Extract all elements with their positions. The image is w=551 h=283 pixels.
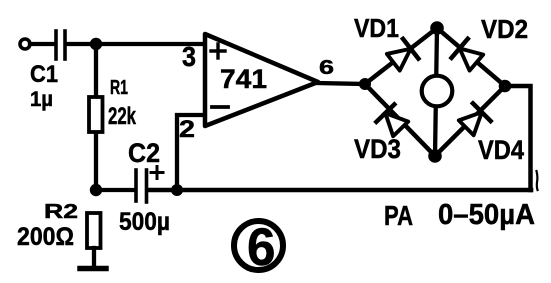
svg-text:C2: C2 <box>128 138 160 168</box>
diode VD4 <box>457 103 490 136</box>
op-amp minus input mark <box>212 105 228 109</box>
node B (bottom-left junction) <box>90 184 102 196</box>
node Bt (bridge bottom) <box>428 149 442 163</box>
wire C1 to op-amp pin 3 <box>67 42 204 46</box>
node R (bridge right) <box>499 80 512 93</box>
wire bridge right to rail <box>505 86 531 190</box>
svg-text:VD3: VD3 <box>354 134 401 164</box>
svg-text:VD1: VD1 <box>354 13 399 43</box>
node T (bridge top) <box>430 21 444 35</box>
bridge edge B-R <box>435 86 505 156</box>
svg-text:3: 3 <box>182 41 196 72</box>
svg-text:VD2: VD2 <box>481 14 528 44</box>
diode VD1 <box>386 39 419 72</box>
node L (bridge left) <box>359 78 371 90</box>
wire terminal to C1 <box>30 42 53 46</box>
wire R2 to ground <box>92 248 96 266</box>
ground <box>80 266 106 272</box>
svg-text:741: 741 <box>220 64 267 94</box>
capacitor C2 <box>136 170 147 202</box>
input terminal <box>20 39 30 49</box>
bridge edge T-R <box>437 28 505 86</box>
svg-text:6: 6 <box>319 57 334 79</box>
bridge edge L-T <box>365 28 437 84</box>
wire op-amp output to bridge <box>318 83 365 84</box>
svg-text:C1: C1 <box>30 61 58 88</box>
meter stem wire <box>435 28 437 156</box>
scan scratch mark <box>537 171 538 190</box>
svg-text:6: 6 <box>247 218 276 277</box>
resistor R1 <box>89 97 103 132</box>
diode VD2 <box>452 39 485 72</box>
wire node C up to pin 2 <box>177 115 204 190</box>
svg-text:PA: PA <box>384 200 413 231</box>
svg-text:R1: R1 <box>110 77 128 99</box>
svg-text:200Ω: 200Ω <box>17 223 74 251</box>
wire bottom rail left segment <box>96 188 134 192</box>
op-amp U1 741 <box>205 34 318 126</box>
diode VD3 <box>376 104 409 137</box>
capacitor C1 <box>56 31 65 59</box>
svg-text:500µ: 500µ <box>119 208 170 236</box>
node A (input junction) <box>90 38 102 50</box>
wire node A down to bottom rail <box>94 44 98 190</box>
meter PA body <box>422 76 453 107</box>
C2 plus polarity mark <box>151 167 163 179</box>
wire bottom rail right segment <box>149 188 532 193</box>
svg-text:0–50µA: 0–50µA <box>438 199 535 231</box>
figure number circle <box>234 221 283 270</box>
svg-text:1µ: 1µ <box>30 88 53 111</box>
svg-text:2: 2 <box>179 116 195 143</box>
svg-text:R2: R2 <box>44 201 78 223</box>
svg-text:VD4: VD4 <box>478 135 524 165</box>
bridge edge B-L <box>365 84 435 156</box>
op-amp plus input mark <box>211 44 225 58</box>
node C (pin2 junction) <box>171 184 183 196</box>
resistor R2 <box>87 213 101 248</box>
svg-text:22k: 22k <box>108 103 136 130</box>
